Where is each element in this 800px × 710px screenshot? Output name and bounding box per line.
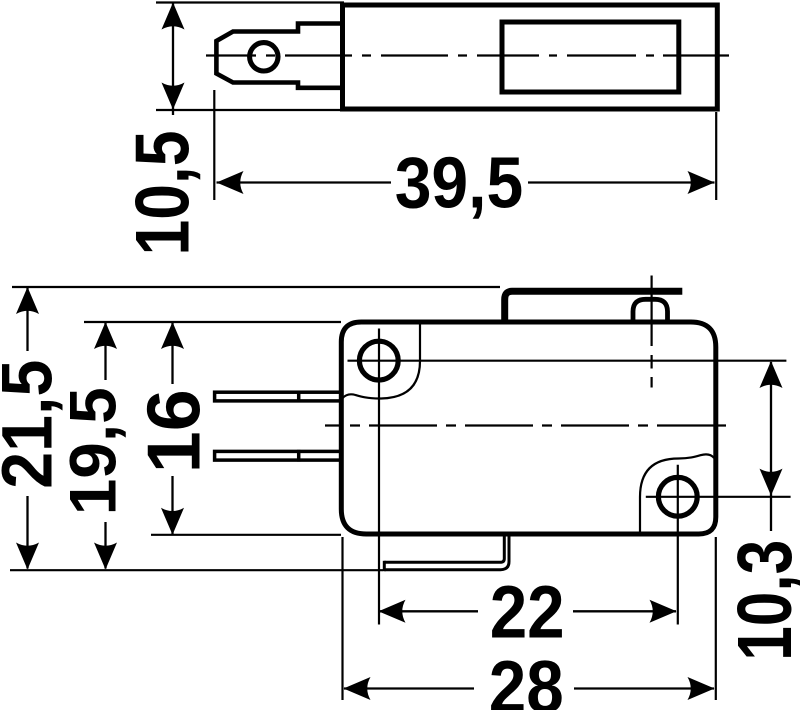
mounting hole bottom-right crosshair horizontal (extends right as 10,3 bottom extension) xyxy=(646,496,791,498)
bottom common terminal outer edge xyxy=(384,534,509,570)
dimension 22 arrow right xyxy=(650,600,677,623)
dimension 39,5 arrow left xyxy=(217,171,244,194)
lever arm xyxy=(505,291,683,321)
dimension 28 line left segment xyxy=(344,687,474,689)
dimension 28 line right segment xyxy=(574,687,714,689)
dimension 10,3 line xyxy=(770,362,772,531)
dimension 19,5 line upper segment xyxy=(104,323,106,381)
boss contour around bottom-right hole xyxy=(640,454,714,532)
dimension 10,5 extension line bottom xyxy=(156,109,342,111)
dimension 22 line left segment xyxy=(379,610,478,612)
mounting hole top-left xyxy=(359,341,398,380)
dimension 21,5 line upper segment xyxy=(26,288,28,352)
dimension 21,5 arrow down xyxy=(16,543,39,570)
front view centerline xyxy=(325,424,726,426)
mounting hole top-left crosshair vertical (extends down as 22 left extension) xyxy=(378,329,380,625)
dimension 28 arrow right xyxy=(688,677,715,700)
svg-text:19,5: 19,5 xyxy=(57,387,130,515)
dimension 39,5 line left segment xyxy=(217,181,392,183)
mounting hole bottom-right xyxy=(658,477,697,516)
dimension 19,5 arrow up xyxy=(94,322,117,349)
bottom common terminal end cap xyxy=(383,561,386,571)
dimension 39,5 arrow right xyxy=(688,171,715,194)
dimension 21,5 line lower segment xyxy=(26,496,28,569)
actuator centerline xyxy=(650,276,652,388)
top view centerline xyxy=(206,54,729,56)
dimension 16 bottom extension line xyxy=(151,534,341,536)
dimension 10,5 arrow up xyxy=(162,3,185,30)
terminal 1 (upper left blade) xyxy=(215,392,342,401)
svg-text:16: 16 xyxy=(132,389,216,473)
dimension 22 line right segment xyxy=(573,610,676,612)
dimension 28 extension line right xyxy=(715,537,717,700)
front view body outline xyxy=(341,322,716,534)
dimension 22 arrow left xyxy=(379,600,406,623)
dimension 19,5 arrow down xyxy=(94,543,117,570)
mounting hole bottom-right crosshair vertical (extends down as 22 right extension) xyxy=(677,465,679,625)
spade terminal blade outline xyxy=(216,24,342,88)
top view inner rectangle (label area) xyxy=(502,22,679,92)
dimension 21,5 extension line top xyxy=(12,286,500,288)
dimension 10,5 extension line top xyxy=(156,1,344,3)
actuator plunger xyxy=(633,299,668,322)
dimension 16 arrow up xyxy=(161,322,184,349)
dimension 10,3 arrow down xyxy=(760,469,783,496)
svg-text:10,5: 10,5 xyxy=(121,131,206,256)
dimension 19,5 line lower segment xyxy=(104,522,106,569)
svg-text:28: 28 xyxy=(489,646,564,710)
boss contour around top-left hole xyxy=(343,324,421,399)
dimension 28 extension line left xyxy=(341,537,343,700)
mounting hole top-left crosshair horizontal (extends right as 10,3 top extension) xyxy=(348,360,787,362)
dimension 10,5 line xyxy=(172,3,174,115)
dimension 16 line upper segment xyxy=(171,323,173,385)
dimension 16 line lower segment xyxy=(171,476,173,534)
terminal 1 notch tick xyxy=(297,391,301,403)
dimension 39,5 extension line right xyxy=(715,112,717,200)
top view body outline xyxy=(343,5,718,109)
dimension 28 arrow left xyxy=(344,677,371,700)
bottom common terminal inner edge xyxy=(384,534,504,562)
svg-text:10,3: 10,3 xyxy=(722,540,800,661)
shared bottom extension line for 21,5 and 19,5 xyxy=(10,569,383,571)
dimension 10,3 arrow up xyxy=(760,361,783,388)
dimension 21,5 arrow up xyxy=(16,287,39,314)
terminal 2 notch tick xyxy=(297,450,301,462)
svg-text:22: 22 xyxy=(490,571,565,654)
dimension 39,5 line right segment xyxy=(528,181,715,183)
dimension 10,5 arrow down xyxy=(162,83,185,110)
spade terminal hole xyxy=(250,43,278,71)
dimension 39,5 extension line left xyxy=(213,90,215,200)
terminal 2 (lower left blade) xyxy=(215,451,342,460)
svg-text:39,5: 39,5 xyxy=(395,143,524,224)
dimension 16 arrow down xyxy=(161,508,184,535)
top extension line shared by 19,5 and 16 xyxy=(84,321,341,323)
